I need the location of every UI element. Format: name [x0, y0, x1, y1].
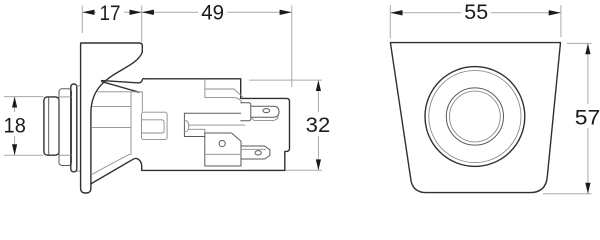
- dimension 57 line: [587, 43, 589, 193]
- svg-text:17: 17: [100, 1, 121, 25]
- body left face line: [141, 92, 143, 112]
- terminal 87 block: [205, 133, 241, 166]
- dimension 32 arrows: [316, 80, 321, 91]
- svg-text:49: 49: [201, 1, 224, 25]
- dimension 55 arrows: [390, 10, 402, 15]
- housing front plate: [71, 84, 77, 172]
- flange wedge lower diagonal: [102, 82, 139, 93]
- bezel ring: [59, 89, 72, 166]
- flange skirt outer edge: [91, 158, 141, 183]
- button cap: [44, 97, 59, 155]
- plate to flange connector bottom: [77, 170, 81, 172]
- flange wedge horizontal: [98, 91, 143, 93]
- body inner lines at left: [92, 107, 131, 128]
- dimension 18 arrows: [12, 97, 17, 108]
- svg-text:57: 57: [575, 106, 600, 130]
- centre contact step vertical: [204, 129, 206, 133]
- button outer circle: [425, 67, 525, 167]
- dimension 32 line: [317, 80, 319, 170]
- centre terminal left edge: [183, 113, 185, 136]
- dimension 57 extension lines: [543, 43, 592, 193]
- flange wedge top diagonal: [102, 79, 145, 83]
- terminal 87 block inner line: [205, 153, 241, 155]
- svg-text:55: 55: [464, 0, 488, 24]
- bezel shoulder lines: [59, 97, 71, 155]
- dimension 49 line: [142, 11, 292, 13]
- button inner ring outer: [446, 88, 503, 145]
- dimension 55 line: [390, 12, 561, 14]
- mounting flange funnel arc: [91, 52, 142, 184]
- button outer circle inner edge: [429, 70, 521, 162]
- plunger guide rectangle: [142, 112, 168, 139]
- rear block shelf line: [205, 89, 243, 97]
- centre contact bullet: [184, 120, 188, 132]
- svg-text:32: 32: [306, 113, 331, 137]
- dimension 32 extension lines: [247, 80, 322, 170]
- switch body outline: [142, 79, 290, 171]
- dimension 17 line: [82, 11, 141, 13]
- centre terminal bottom line: [184, 136, 205, 138]
- plate to flange connector top: [77, 85, 81, 87]
- flange skirt inner edge: [91, 154, 129, 174]
- terminal 87a blade 3D bottom edge: [251, 117, 278, 121]
- dimension 55 extension lines: [390, 5, 561, 39]
- terminal 87a blade hole: [263, 109, 270, 113]
- centre contact lower line: [189, 128, 205, 130]
- button cap face line: [48, 98, 50, 155]
- dimension 18 extension lines: [4, 97, 44, 156]
- dimension 17 extension lines: [82, 6, 141, 43]
- rear block lower shelf: [205, 98, 242, 103]
- terminal 87 blade 3D top edge: [241, 148, 266, 150]
- terminal 87a boss: [241, 103, 251, 121]
- centre contact middle line: [189, 124, 245, 126]
- terminal 87a blade: [251, 106, 279, 117]
- centre terminal top line: [184, 112, 240, 114]
- dimension 49 arrows: [142, 10, 154, 15]
- button inner ring inner: [450, 91, 501, 142]
- terminal 87 blade hole: [255, 151, 261, 155]
- mounting flange outline: [81, 43, 143, 193]
- rear block inner vertical: [204, 79, 206, 98]
- dimension 17 arrows: [82, 10, 94, 15]
- dimension 57 arrows: [585, 43, 590, 54]
- terminal 87 rivet hole: [219, 140, 225, 146]
- terminal 87 blade: [241, 146, 270, 159]
- front view trapezoid: [390, 43, 560, 193]
- dimension 49 right extension line: [291, 6, 293, 88]
- flange inner vertical line: [130, 92, 132, 155]
- plunger inner bottom line: [142, 132, 162, 134]
- plunger inner top line: [142, 119, 162, 121]
- svg-text:18: 18: [4, 113, 26, 137]
- plunger inner vertical: [162, 120, 165, 133]
- dimension 18 line: [14, 97, 16, 156]
